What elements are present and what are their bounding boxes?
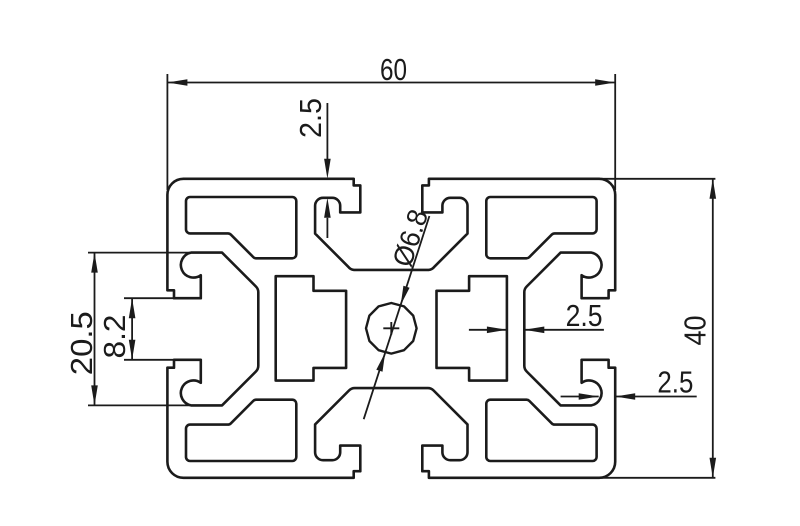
dimension 40: top arrowhead <box>710 179 717 199</box>
dimension 20.5: bottom arrowhead <box>91 385 98 405</box>
dimension 8.2: bottom extension line <box>124 359 180 361</box>
dimension 60: left extension line <box>166 74 168 190</box>
center hole: cross vertical tick <box>390 322 392 335</box>
svg-text:2.5: 2.5 <box>293 98 328 138</box>
dimension 60: left arrowhead <box>167 79 187 86</box>
corner chamber top-right <box>486 197 596 258</box>
dimension 2.5 middle-right: right-pointing arrowhead <box>487 327 507 334</box>
dimension 8.2: top arrowhead <box>129 298 136 318</box>
corner chamber bottom-right <box>486 400 596 461</box>
dimension 2.5 top: up arrowhead at slot ceiling <box>324 198 331 218</box>
profile outer boundary with four T-slot cutouts <box>167 179 615 478</box>
dimension 2.5 top: down arrowhead at outer surface <box>324 159 331 179</box>
dimension 2.5 lower-right: right dimension line <box>615 396 697 398</box>
dimension 2.5 lower-right: right-pointing arrowhead <box>579 393 599 400</box>
dimension 2.5 top: leader line above <box>326 103 328 160</box>
T-shaped cavity left of center hole <box>276 276 346 380</box>
dimension 2.5 middle-right: left dimension line <box>469 329 507 331</box>
center hole: cross horizontal tick <box>383 327 399 329</box>
corner chamber bottom-left <box>186 400 296 461</box>
dimension 2.5 middle-right: left-pointing arrowhead <box>524 327 544 334</box>
dimension 8.2: dimension line <box>131 298 133 360</box>
dimension 40: top extension line <box>601 178 715 180</box>
dimension diameter 6.8: upper arrowhead <box>401 286 410 305</box>
svg-text:2.5: 2.5 <box>566 298 603 333</box>
dimension 60: right extension line <box>614 74 616 190</box>
dimension 20.5: top extension line <box>88 252 200 254</box>
dimension 40: bottom extension line <box>601 477 715 479</box>
dimension 20.5: dimension line <box>94 253 96 406</box>
dimension diameter 6.8: lower arrowhead <box>376 353 385 372</box>
svg-text:60: 60 <box>380 52 407 87</box>
dimension 2.5 lower-right: left dimension line <box>561 396 599 398</box>
dimension 2.5 lower-right: left-pointing arrowhead <box>615 393 635 400</box>
dimension 20.5: bottom extension line <box>88 404 200 406</box>
dimension 20.5: top arrowhead <box>91 253 98 273</box>
svg-text:20.5: 20.5 <box>64 311 99 375</box>
dimension 60: dimension line <box>167 82 615 84</box>
dimension 8.2: bottom arrowhead <box>129 340 136 360</box>
center hole circle (diameter 6.8) <box>366 303 417 354</box>
dimension 40: bottom arrowhead <box>710 458 717 478</box>
dimension 2.5 top: leader tail below <box>326 218 328 238</box>
dimension 2.5 middle-right: right dimension line <box>524 329 604 331</box>
T-shaped cavity right of center hole <box>437 276 507 380</box>
dimension 60: right arrowhead <box>595 79 615 86</box>
svg-text:8.2: 8.2 <box>97 315 132 359</box>
svg-text:2.5: 2.5 <box>657 365 693 400</box>
corner chamber top-left <box>186 197 296 258</box>
dimension 40: dimension line <box>712 179 714 478</box>
svg-text:Ø6.8: Ø6.8 <box>387 206 434 271</box>
dimension 8.2: top extension line <box>124 297 180 299</box>
dimension diameter 6.8: leader line <box>364 216 430 419</box>
svg-text:40: 40 <box>678 316 713 346</box>
